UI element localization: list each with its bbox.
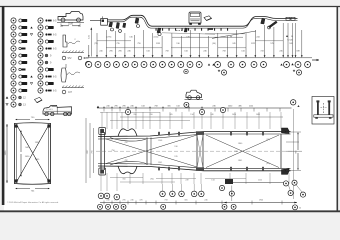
bl-box top edge [15,122,51,125]
svg-text:350: 350 [133,114,136,116]
legend open triangle row L3 [30,33,32,35]
detail B ground line [62,87,84,89]
side view rear spring eye [268,26,271,29]
plan view engine crossmember [146,138,148,166]
side view left tall dim lines [90,29,92,57]
cab-chassis truck icon [43,105,72,114]
legend open triangle near bottom [6,103,8,105]
secondary callouts below row [218,70,220,72]
legend item L1 fastener symbol [19,19,27,22]
front crossmember bottom end [99,168,106,175]
legend item R3 fastener symbol [45,33,57,36]
svg-text:305: 305 [169,114,172,116]
plan view rear rail stubs [285,131,291,133]
legend item R3 callout circle [38,32,43,37]
legend item L12 fastener symbol [19,96,27,99]
bl-box right rail [50,123,52,184]
legend item L1 callout circle [11,18,16,23]
bl-box bottom edge [15,183,51,186]
plan view bottom control arm [110,161,146,165]
bl-box top dimension 790 [16,119,31,121]
legend item L11 fastener symbol [19,89,27,92]
legend filled triangle row L9 [30,75,32,77]
pickup wheel 2 [196,96,200,100]
ladder callout circle mid [184,102,189,107]
legend item L13 callout circle [11,102,16,107]
arrow pointing to detail A [84,57,89,59]
side view: rear end cap boxes [286,17,290,20]
detail box base plate [314,115,333,117]
svg-text:249: 249 [185,180,188,182]
legend item L3 callout circle [11,32,16,37]
leader to right callouts [288,184,290,190]
side view: mid hanger 1 [157,28,161,32]
legend item R4 fastener symbol [45,40,53,43]
detail A ground line [62,52,84,54]
detail A squiggle annotation [68,41,80,44]
legend item R8 fastener symbol [45,68,53,71]
truck icon wheel 3 [64,112,67,115]
side view dimension verticals [88,45,90,57]
side view: hanger blob 3 [123,23,126,28]
legend item R7 fastener symbol [45,61,52,64]
ladder end triangle [297,105,299,107]
legend item L6 callout circle [11,53,16,58]
long vertical extension from ladder end [293,109,295,199]
detail box feet [315,117,318,119]
plan view rear crossmember [280,134,282,168]
plan view right dim vertical 850 [297,133,299,151]
legend item R5 fastener symbol [45,47,57,50]
plan view small rail brackets [158,132,160,136]
plan view top dim line 2 [100,112,160,114]
legend item R8 callout circle [38,67,43,72]
legend item L8 fastener symbol [19,68,26,70]
legend item L2 fastener symbol [19,26,27,29]
detail box center dashes [323,103,325,114]
svg-text:134: 134 [211,180,214,182]
front truck wheels [189,23,192,25]
bottom callouts right [229,191,234,196]
svg-text:© 2005 Mitchell Repair Informa: © 2005 Mitchell Repair Information Co. A… [7,201,59,204]
truck icon wheel 4 [68,112,71,115]
svg-text:T2 ±0.5: T2 ±0.5 [46,109,54,111]
plan bottom bracket [225,179,233,184]
legend item R9 callout circle [38,74,43,79]
legend item R10 fastener symbol [45,82,53,85]
side view upper connector [162,33,215,34]
legend item L3 fastener symbol [19,33,27,36]
plan view left dim verticals [85,118,87,183]
pickup wheel 1 [188,96,192,100]
plan view top control arm [110,138,146,142]
side view driveline horizontal [172,36,243,38]
legend bottom filled triangle [6,96,9,98]
legend item R2 callout circle [38,25,43,30]
under-rail horizontal dim segments [110,177,143,179]
side view mid spring eye [158,32,161,35]
svg-text:470: 470 [139,199,142,201]
truck icon body line [44,110,71,112]
callout row triangles [208,63,210,65]
detail B leader [65,64,67,68]
ladder end callout circle [291,100,296,105]
side view: fuel tank dashes [176,30,183,32]
front-view truck icon [189,12,201,23]
svg-text:240: 240 [106,199,109,201]
legend item R5 callout circle [38,46,43,51]
bottom ladder ticks [103,201,105,205]
pickup ground line [185,99,204,101]
plan view front crossmember [100,132,102,170]
leader vertical left of 1940 dim [231,186,233,202]
side view: mid hanger 2 [184,28,187,32]
legend item L4 fastener symbol [19,40,27,43]
plan view bottom rail inner [98,164,285,169]
svg-text:50: 50 [299,208,301,210]
truck icon wheel 1 [45,112,48,115]
below-ladder callout circles [98,204,103,209]
svg-text:350: 350 [122,179,125,181]
side view driveline diagonal [212,31,256,38]
middle ladder tick marks [103,108,105,112]
plan view top dim line [120,116,283,118]
svg-text:1050: 1050 [232,114,236,116]
truck icon window [52,105,57,107]
svg-text:296: 296 [114,199,117,201]
svg-text:246: 246 [210,114,213,116]
plan view top extension verticals [101,112,103,129]
legend item L7 fastener symbol [19,61,27,64]
small extra callout below row [184,69,188,73]
legend item R4 callout circle [38,39,43,44]
legend item R11 fastener symbol [45,89,57,92]
truck icon bed line [59,16,67,18]
bl-box diagonal 1 [17,126,49,182]
plan view rear bay X diagonal 1 [206,135,279,168]
plan view top rail inner [98,134,285,139]
legend item R9 fastener symbol [45,75,57,78]
legend item L10 callout circle [11,81,16,86]
side view eye under hump [137,25,140,28]
plan view top rail outer [98,132,285,137]
plan view bottom extension verticals [100,173,102,184]
right arrow marker after circle row [312,59,319,61]
side view horizontal connector lines [97,40,131,42]
front crossmember top end [99,128,106,135]
legend item L7 callout circle [11,60,16,65]
legend item L12 callout circle [11,95,16,100]
side view rail bolt ticks [156,28,157,31]
pickup truck icon middle [186,90,202,97]
svg-text:246: 246 [204,199,207,201]
legend item L6 fastener symbol [19,54,27,57]
detail box left stud [317,102,319,115]
svg-text:(94): (94) [150,179,154,181]
detail A small circle right [78,56,82,60]
detail box right stud [328,102,330,115]
ramp wedge icon [204,16,212,21]
svg-text:760: 760 [149,114,152,116]
svg-text:(55): (55) [266,163,270,165]
side view: rear hanger [261,19,265,25]
side view baseline [86,57,312,59]
plan view front bay X diagonal 1 [106,139,197,167]
truck icon wheel 2 [51,112,54,115]
legend item R7 callout circle [38,60,43,65]
legend item R2 fastener symbol [45,26,53,29]
wedge dark edge [37,100,42,103]
svg-text:1122: 1122 [258,180,262,182]
bottom ladder line [100,202,297,204]
callout circles on bottom rail extension [283,181,288,186]
bottom callout circles mid [160,191,166,197]
border bottom [0,210,340,212]
plan view rear bay X diagonal 2 [206,135,279,168]
truck pickup icon top-left [58,12,83,21]
bottom callout circles cluster left [98,193,104,199]
legend item L9 callout circle [11,74,16,79]
svg-text:(770): (770) [107,37,112,39]
legend item L11 callout circle [11,88,16,93]
side view: rail top line [107,15,297,26]
legend item R10 callout circle [38,81,43,86]
svg-text:134: 134 [190,114,193,116]
svg-text:1940: 1940 [259,199,263,201]
plan view right extension lines [286,141,299,143]
mid crossmember inner brace 1 [197,135,203,168]
middle ladder start triangle [97,106,100,108]
wedge ramp icon left of truck [35,97,43,102]
front truck grille [190,18,200,20]
legend item L10 fastener symbol [19,82,27,85]
svg-text:(55): (55) [266,139,270,141]
plan view rear corner bracket top [282,128,290,134]
callout circle under arrow [85,61,90,66]
side view rear dim text T2140 [286,35,288,37]
detail sketch A: jack bracket [63,35,67,47]
svg-text:(155): (155) [154,37,159,39]
bl-box far-left vertical dimension 1350 [6,124,8,183]
legend item L13 fastener symbol [19,103,27,106]
detail B squiggle [67,72,80,75]
mid crossmember inner brace 2 [197,135,203,168]
svg-text:1485: 1485 [256,114,260,116]
plan view top suspension ears [118,129,137,137]
legend item L9 fastener symbol [19,75,27,78]
svg-text:758: 758 [164,199,167,201]
middle ladder main line [97,107,292,109]
legend item L5 fastener symbol [19,47,26,49]
bottom callout circle higher [219,185,224,190]
truck icon wheel 2 [77,18,81,22]
bl-box corner brackets [14,124,17,127]
side view tiny stub above box [102,16,104,18]
legend item L8 callout circle [11,67,16,72]
legend item R6 fastener symbol [45,54,52,57]
legend item L5 callout circle [11,46,16,51]
truck dimension 2180 [61,25,69,27]
plan view bottom rail extension [232,182,289,184]
detail B hatching [62,86,64,88]
plan view rear corner bracket bottom [282,169,290,175]
bl-box inner vertical dimension [20,131,22,153]
bl-box bottom dimension 764 [16,188,31,190]
ramp wedge dark edge [207,18,212,20]
detail A hatching [62,51,64,53]
bl-box diagonal 2 [17,126,49,182]
svg-text:T2140: T2140 [287,40,294,42]
legend item R11 callout circle [38,88,43,93]
border top [0,6,340,8]
truck icon bed divider [56,107,58,114]
side view: front frame tip line [90,20,101,22]
svg-text:305: 305 [184,199,187,201]
side view: front spring eye [111,28,114,31]
leaders from rail down to mid circle row [100,184,102,191]
side view: rail bottom line [107,17,297,28]
svg-text:(79): (79) [94,43,98,45]
plan view bottom rail outer [98,166,285,171]
middle ladder tick triangles [103,106,105,107]
legend open triangle row L10 [30,82,32,84]
truck icon ground line [57,21,84,23]
svg-text:2180: 2180 [68,24,74,26]
legend item R6 callout circle [38,53,43,58]
border left bar [2,6,5,205]
detail A label circle 972 [62,56,66,60]
plan view front bay X diagonal 2 [106,135,197,164]
plan view top dim line 3 [110,120,190,122]
side view: bracket on rail mid [209,28,214,30]
border right [336,6,338,211]
legend item R1 fastener symbol [45,19,57,22]
plan view centerline [96,150,292,152]
side view: bracket under hump [135,18,139,24]
legend item L2 callout circle [11,25,16,30]
bl-box left rail [14,123,16,184]
legend filled triangle row L2 [30,26,32,28]
svg-text:246: 246 [130,199,133,201]
plan view top callout circles [125,109,130,114]
plan view mid crossmember [196,134,198,168]
front truck windshield [190,13,199,16]
side view: front bracket box [101,19,108,26]
svg-text:296: 296 [122,199,125,201]
legend item R1 callout circle [38,18,43,23]
legend item L4 callout circle [11,39,16,44]
side view callout circles row [86,62,92,68]
truck icon wheel 1 [61,18,65,22]
plan view bottom suspension ears [118,166,137,174]
side view: hanger blob 1 [109,22,113,27]
detail box border [312,97,334,125]
below-ladder circle right end [293,205,298,210]
detail B label circle 107 [62,90,66,94]
side view: rear shackle diagonal [269,21,278,28]
svg-text:(94): (94) [212,43,216,45]
detail sketch B: jack bracket 2 [61,68,66,82]
side view: hanger blob 2 [116,23,120,29]
